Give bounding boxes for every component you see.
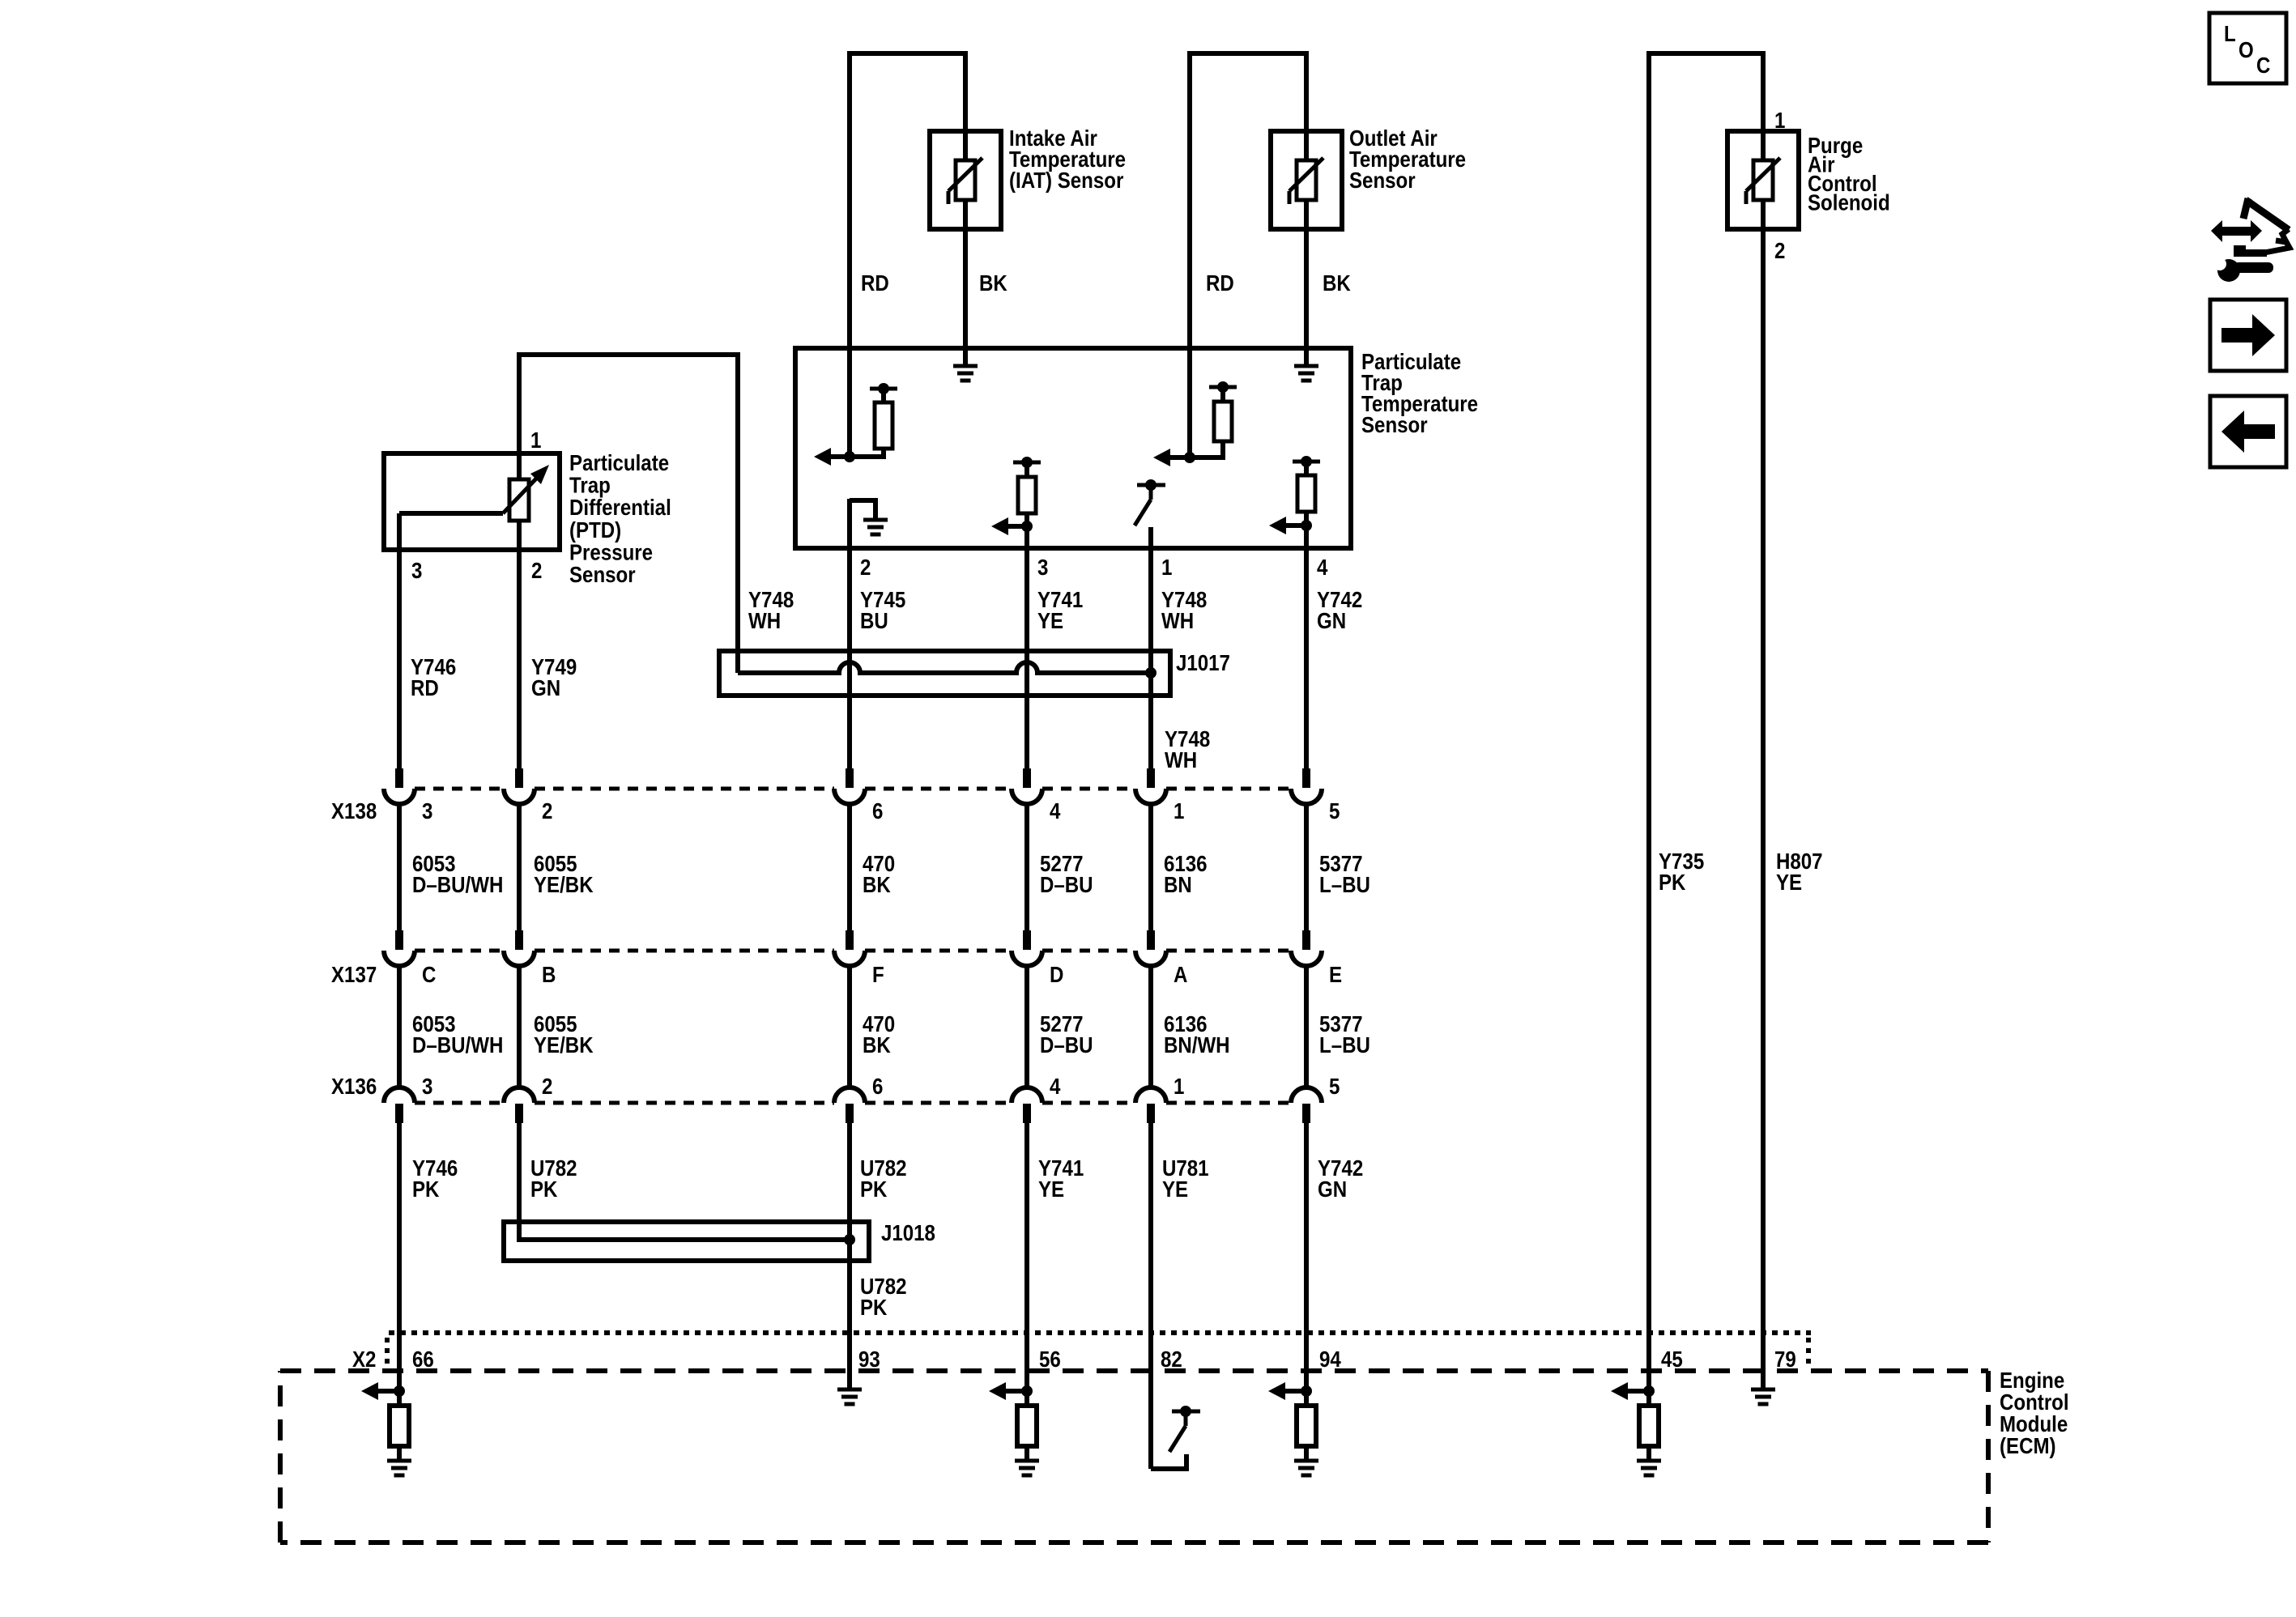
svg-text:1: 1 [1174,1073,1184,1099]
arrow signal ECM pin 56 [1004,1389,1027,1394]
wire circuit 5277 X137 to X136 [1024,964,1029,1087]
connector row X138 dashed line segment [415,787,504,791]
wire to resistor ECM pin 94 [1304,1391,1309,1406]
wire splice inside J1017 with hops [738,662,1151,673]
svg-text:5: 5 [1329,798,1340,823]
connector row X136 dashed line segment [415,1101,504,1105]
svg-text:4: 4 [1050,1073,1061,1099]
svg-text:C: C [422,961,437,987]
wire Y735 PK vertical [1646,51,1651,1391]
svg-text:C: C [2256,52,2271,78]
node junction ECM pin 94 [1301,1385,1312,1397]
wire Y741 YE down to ECM [1024,1122,1029,1391]
svg-text:45: 45 [1661,1346,1683,1372]
connector row X2 dotted line [389,1330,1811,1335]
svg-text:GN: GN [1317,607,1346,633]
arrow E2 [1007,524,1027,529]
svg-text:BN: BN [1164,871,1192,897]
resistor ECM pin 45 pull [1639,1406,1659,1446]
connector X138 pin 2 [515,768,523,788]
wire Y745 BU pin2 down [847,499,852,768]
connector X137 pin C [395,930,403,950]
svg-text:WH: WH [1165,747,1197,772]
connector X138 pin 1 [1147,768,1155,788]
svg-text:WH: WH [1161,607,1194,633]
svg-text:PK: PK [860,1294,888,1320]
junction block J1017 [719,651,1170,696]
svg-text:BN/WH: BN/WH [1164,1032,1230,1057]
wire H807 purge solenoid leg upper [1761,51,1766,160]
wire BK Outlet sensor leg [1304,51,1309,366]
svg-text:6: 6 [872,798,883,823]
wire bridge Outlet supply (top) [1190,51,1306,56]
svg-text:Solenoid: Solenoid [1808,189,1890,215]
connector X136 pin 5 [1291,1087,1322,1103]
component box Purge Air Control Solenoid [1727,131,1799,229]
svg-text:WH: WH [748,607,781,633]
svg-text:93: 93 [858,1346,880,1372]
svg-text:GN: GN [1318,1176,1347,1202]
wire circuit 6053 X138 to X137 [397,802,402,932]
svg-text:56: 56 [1039,1346,1061,1372]
svg-text:3: 3 [1037,554,1048,580]
connector row X137 dashed line segment [1166,949,1291,953]
variable arrow PTD wiper [503,476,539,513]
sensing element E1 (IAT input) [870,387,897,391]
svg-text:J1017: J1017 [1176,649,1230,675]
wire H807 YE vertical [1761,200,1766,1389]
connector X136 pin 1 [1135,1087,1166,1103]
svg-text:2: 2 [860,554,871,580]
ground Outlet BK inside temp box [1294,364,1318,368]
svg-text:YE/BK: YE/BK [534,871,594,897]
wire to resistor ECM pin 56 [1024,1391,1029,1406]
module box Engine Control Module (ECM) dashed [280,1368,1988,1373]
thermistor Outlet element [1297,160,1316,200]
svg-text:A: A [1174,961,1188,987]
wire Y746 PK down from X136 [397,1122,402,1391]
wire circuit 6136 X137 to X136 [1148,964,1153,1087]
svg-text:X138: X138 [331,798,377,823]
svg-text:E: E [1329,961,1342,987]
connector X136 pin 6 [834,1087,865,1103]
connector X136 pin 3 [384,1087,415,1103]
svg-text:PK: PK [860,1176,888,1202]
svg-text:X2: X2 [352,1346,376,1372]
component box Particulate Trap Differential (PTD) Pressure Sensor [384,453,560,550]
connector X138 pin 6 [846,768,854,788]
connector X136 pin 4 [1012,1087,1042,1103]
node junction ECM pin 66 [394,1385,405,1397]
connector X138 pin 3 [395,768,403,788]
arrow E5 [1284,523,1306,528]
ground ECM pin 56 [1015,1459,1039,1463]
svg-text:YE: YE [1162,1176,1188,1202]
wire Y741 YE pin3 down [1024,526,1029,768]
ECM pin 93 ground [837,1388,862,1392]
wire RD to IAT sensor [847,51,852,457]
connector X137 pin F [846,930,854,950]
svg-text:BK: BK [863,1032,891,1057]
svg-text:D–BU: D–BU [1040,871,1093,897]
connector row X138 dashed line segment [1042,787,1135,791]
node junction E2 [1021,521,1033,532]
wire U782 PK into J1018 [519,1122,850,1240]
sensing element E5 (pin4) [1293,460,1320,464]
connector X136 pin 2 [504,1087,535,1103]
wire BK IAT sensor leg [963,51,968,366]
svg-text:6: 6 [872,1073,883,1099]
svg-text:D–BU/WH: D–BU/WH [412,871,503,897]
svg-text:X137: X137 [331,961,377,987]
svg-text:PK: PK [530,1176,558,1202]
svg-text:L–BU: L–BU [1319,871,1370,897]
svg-text:RD: RD [861,270,889,296]
component box Particulate Trap Temperature Sensor [795,348,1351,548]
wire bridge Purge supply (top) [1649,51,1763,56]
icon arrow left box [2210,396,2286,467]
wire PTD pin 3 internal [399,511,503,516]
svg-text:BK: BK [1323,270,1351,296]
svg-text:BK: BK [979,270,1007,296]
svg-text:O: O [2238,36,2254,62]
arrow signal ECM pin 94 [1284,1389,1306,1394]
resistor PTD sensing element [509,479,529,521]
svg-text:X136: X136 [331,1073,377,1099]
node junction E4 [1184,452,1195,463]
svg-text:82: 82 [1161,1346,1182,1372]
connector X137 pin D [1023,930,1031,950]
connector row X138 dashed line segment [535,787,834,791]
connector row X137 dashed line segment [1042,949,1135,953]
wire RD to Outlet sensor [1187,51,1192,457]
svg-text:94: 94 [1319,1346,1341,1372]
svg-text:2: 2 [542,1073,552,1099]
wire Y746 RD pin3 down [397,513,402,768]
wire U782 PK main down [847,1122,852,1389]
wire circuit 6053 X137 to X136 [397,964,402,1087]
svg-text:PK: PK [412,1176,440,1202]
connector row X136 dashed line segment [535,1101,834,1105]
svg-text:3: 3 [422,798,432,823]
connector X138 pin 5 [1302,768,1310,788]
svg-text:PK: PK [1659,869,1686,895]
wire circuit 6055 X138 to X137 [517,802,522,932]
svg-text:1: 1 [530,427,541,453]
thermistor IAT element [956,160,975,200]
wire Y748 WH pin1 down [1148,527,1153,768]
ground pin2 branch inside temp box [850,500,875,518]
svg-text:2: 2 [1774,237,1785,263]
wire Y742 GN pin4 down [1304,526,1309,768]
switch ECM pin 82 temperature switch [1172,1410,1200,1414]
ground ECM pin 94 [1294,1459,1318,1463]
svg-text:(ECM): (ECM) [2000,1432,2056,1458]
switch S1 temperature switch pin1 [1137,483,1165,487]
svg-text:1: 1 [1174,798,1184,823]
wire resistor to ground ECM pin 45 [1646,1446,1651,1461]
arrow signal ECM pin 66 [377,1389,399,1394]
wire circuit 5377 X137 to X136 [1304,964,1309,1087]
svg-text:BK: BK [863,871,891,897]
wire resistor to ground ECM pin 66 [397,1446,402,1461]
svg-text:GN: GN [531,674,560,700]
arrow E4 [1169,455,1190,460]
connector row X137 dashed line segment [415,949,504,953]
connector X138 pin 4 [1023,768,1031,788]
svg-text:66: 66 [412,1346,434,1372]
svg-text:J1018: J1018 [881,1219,935,1245]
node splice J1018 [844,1234,855,1245]
svg-text:D: D [1050,961,1063,987]
svg-text:YE: YE [1776,869,1802,895]
wire PTD pin 1 route up and right [519,355,738,673]
svg-text:YE/BK: YE/BK [534,1032,594,1057]
connector row X136 dashed line segment [1166,1101,1291,1105]
svg-text:YE: YE [1037,607,1063,633]
wire hook ECM pin 82 [1151,1454,1186,1469]
svg-text:1: 1 [1161,554,1172,580]
X2 corner stub left [385,1338,390,1367]
connector row X138 dashed line segment [1166,787,1291,791]
connector row X136 dashed line segment [1042,1101,1135,1105]
svg-text:L: L [2224,20,2236,46]
ECM pin 79 ground [1751,1388,1775,1392]
wire resistor to ground ECM pin 94 [1304,1446,1309,1461]
svg-text:BU: BU [860,607,888,633]
resistor ECM pin 66 pull [390,1406,409,1446]
arrow E1 [829,454,850,459]
connector X137 pin E [1302,930,1310,950]
connector row X137 dashed line segment [865,949,1012,953]
wire circuit 470 X137 to X136 [847,964,852,1087]
svg-text:Sensor: Sensor [1349,167,1416,193]
svg-text:4: 4 [1317,554,1328,580]
connector row X137 dashed line segment [535,949,834,953]
svg-text:4: 4 [1050,798,1061,823]
node junction ECM pin 56 [1021,1385,1033,1397]
node junction E1 [844,451,855,462]
sensor box Intake Air Temperature (IAT) Sensor [930,131,1001,229]
svg-text:RD: RD [1206,270,1234,296]
svg-text:F: F [872,961,884,987]
svg-text:2: 2 [542,798,552,823]
X2 corner stub right [1806,1338,1811,1367]
wire circuit 6136 X138 to X137 [1148,802,1153,932]
sensor box Outlet Air Temperature Sensor [1271,131,1342,229]
wire circuit 5377 X138 to X137 [1304,802,1309,932]
wire bridge IAT supply (top) [850,51,965,56]
svg-text:YE: YE [1038,1176,1064,1202]
connector X137 pin A [1147,930,1155,950]
connector row X138 dashed line segment [865,787,1012,791]
ground IAT BK inside temp box [953,364,978,368]
wire resistor to ground ECM pin 56 [1024,1446,1029,1461]
junction block J1018 [504,1222,869,1261]
svg-text:D–BU: D–BU [1040,1032,1093,1057]
wire U781 YE down to ECM [1148,1122,1153,1469]
resistor ECM pin 94 pull [1297,1406,1316,1446]
sensing element E2 (pin3) [1013,461,1041,465]
svg-text:3: 3 [422,1073,432,1099]
wire circuit 470 X138 to X137 [847,802,852,932]
svg-text:(IAT) Sensor: (IAT) Sensor [1009,167,1123,193]
node junction ECM pin 45 [1643,1385,1655,1397]
svg-text:3: 3 [411,557,422,583]
svg-text:Sensor: Sensor [1361,411,1428,437]
ground ECM pin 45 [1637,1459,1661,1463]
connector row X136 dashed line segment [865,1101,1012,1105]
wire PTD pin1 to resistor [517,453,522,479]
thermistor purge solenoid element [1753,160,1773,200]
wire Y742 GN down to ECM [1304,1122,1309,1391]
svg-text:RD: RD [411,674,439,700]
wire circuit 5277 X138 to X137 [1024,802,1029,932]
node splice J1017 [1145,667,1157,679]
resistor ECM pin 56 pull [1017,1406,1037,1446]
wire Y749 GN pin2 down [517,521,522,768]
node junction E5 [1301,520,1312,531]
ground ECM pin 66 [387,1459,411,1463]
svg-text:B: B [542,961,556,987]
svg-text:1: 1 [1774,107,1785,133]
sensing element E4 (Outlet input) [1209,385,1237,389]
connector X137 pin B [515,930,523,950]
arrow signal ECM pin 45 [1626,1389,1649,1394]
svg-text:79: 79 [1774,1346,1796,1372]
svg-text:L–BU: L–BU [1319,1032,1370,1057]
svg-text:2: 2 [531,557,542,583]
icon arrow right box [2210,300,2286,371]
svg-text:D–BU/WH: D–BU/WH [412,1032,503,1057]
icon LOC box [2209,13,2286,83]
svg-text:5: 5 [1329,1073,1340,1099]
icon hand with double arrow and wrench [2211,220,2262,242]
wire circuit 6055 X137 to X136 [517,964,522,1087]
wire to resistor ECM pin 45 [1646,1391,1651,1406]
wire to resistor ECM pin 66 [397,1391,402,1406]
svg-text:Sensor: Sensor [569,561,636,587]
